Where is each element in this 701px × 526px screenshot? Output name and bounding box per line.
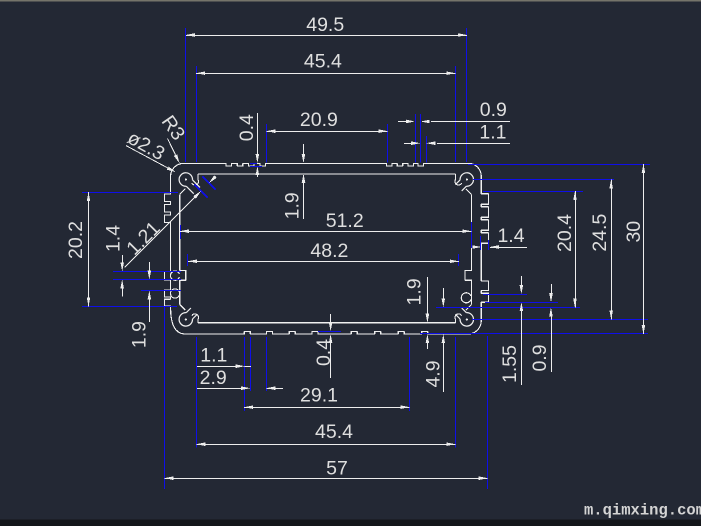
- svg-text:2.9: 2.9: [200, 367, 227, 389]
- svg-text:0.9: 0.9: [480, 99, 507, 121]
- svg-text:49.5: 49.5: [306, 14, 344, 36]
- svg-text:1.55: 1.55: [499, 345, 521, 383]
- svg-text:48.2: 48.2: [310, 240, 348, 262]
- svg-text:0.4: 0.4: [313, 339, 335, 366]
- svg-text:30: 30: [623, 221, 645, 243]
- svg-text:4.9: 4.9: [423, 360, 445, 387]
- svg-text:1.9: 1.9: [403, 278, 425, 305]
- svg-text:20.2: 20.2: [65, 221, 87, 259]
- svg-text:1.4: 1.4: [497, 225, 524, 247]
- svg-text:45.4: 45.4: [304, 51, 342, 73]
- svg-text:24.5: 24.5: [589, 214, 611, 252]
- svg-text:1.9: 1.9: [281, 192, 303, 219]
- svg-text:m.qimxing.com: m.qimxing.com: [584, 502, 701, 520]
- svg-text:20.9: 20.9: [300, 109, 338, 131]
- svg-text:57: 57: [326, 457, 348, 479]
- svg-text:51.2: 51.2: [326, 210, 364, 232]
- svg-text:45.4: 45.4: [315, 421, 353, 443]
- svg-text:29.1: 29.1: [300, 385, 338, 407]
- svg-text:1.9: 1.9: [128, 321, 150, 348]
- svg-text:1.1: 1.1: [200, 345, 227, 367]
- svg-text:1.1: 1.1: [479, 122, 506, 144]
- svg-text:20.4: 20.4: [554, 214, 576, 252]
- svg-text:0.4: 0.4: [236, 114, 258, 141]
- svg-text:1.4: 1.4: [103, 225, 125, 252]
- svg-text:0.9: 0.9: [529, 344, 551, 371]
